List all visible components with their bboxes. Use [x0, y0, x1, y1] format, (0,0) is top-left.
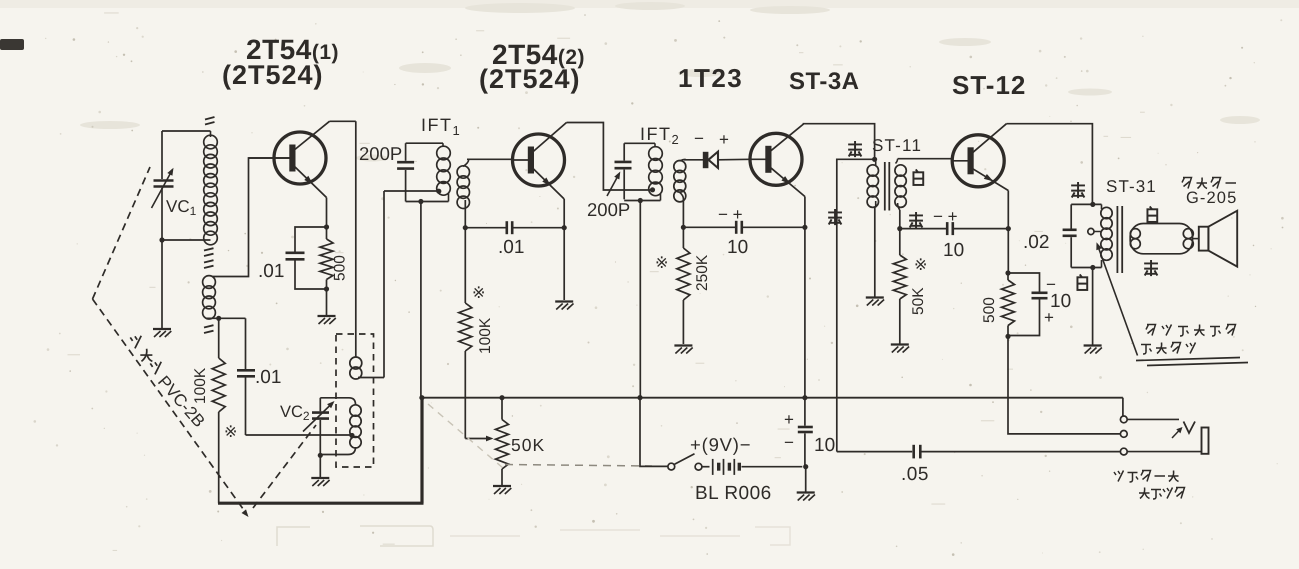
svg-text:1T23: 1T23 [678, 63, 743, 93]
svg-text:+: + [1044, 308, 1054, 327]
wire Q2 emitter down [563, 199, 565, 300]
capacitor .01 Q1 emitter [295, 227, 327, 252]
node volume top on bus [499, 395, 504, 400]
wire Q2 collector top [567, 123, 653, 191]
wire ST-31 bottom to ground [1092, 268, 1094, 345]
earphone jack body [1202, 428, 1209, 454]
svg-text:G-205: G-205 [1186, 189, 1237, 207]
wire VC1 left upper [161, 131, 163, 179]
variable capacitor VC1 [154, 179, 174, 182]
IFT1 secondary coil [457, 166, 469, 178]
node IFT1 tap [436, 189, 441, 194]
node ST-31 bottom [1090, 265, 1095, 270]
diode detector [703, 152, 709, 168]
scan mark left edge [0, 39, 24, 50]
antenna coil core marks middle [204, 248, 214, 250]
thick chassis line vertical [420, 398, 423, 504]
node antenna secondary bottom [216, 316, 221, 321]
svg-text:※: ※ [472, 285, 485, 302]
wire Q3 collector top [804, 124, 875, 160]
transformer ST-31 secondary [1130, 224, 1192, 254]
tap note arrow [1098, 245, 1138, 356]
wire IFT1 bottom to bus [420, 202, 422, 398]
ground 250K [674, 344, 692, 346]
capacitor 10 battery bypass [804, 398, 806, 426]
faint ghost smudges [80, 2, 1260, 162]
antenna coil L1 primary [210, 131, 212, 137]
node VC2 bottom [318, 453, 323, 458]
power switch [668, 463, 675, 470]
svg-text:+: + [784, 410, 794, 429]
node Q4 emitter junction [1006, 226, 1011, 231]
svg-text:.01: .01 [258, 261, 284, 282]
wire jack sleeve [1127, 451, 1201, 453]
svg-text:ST-11: ST-11 [872, 136, 922, 155]
mitsumi gang dashed line upper [93, 167, 151, 299]
node .01 left [463, 225, 468, 230]
svg-text:100K: 100K [192, 367, 209, 404]
VC2 arrow [303, 403, 333, 432]
label midori green ST-11 top [848, 141, 862, 157]
mechanical link fragment [428, 404, 503, 468]
wire VC1 to ground [161, 240, 163, 328]
transformer ST-11 core [884, 162, 886, 211]
node VC1 bottom [159, 237, 164, 242]
wire Q4 collector top [1007, 124, 1093, 204]
capacitor 10 detector [683, 226, 735, 228]
wire Q4 emitter down [1007, 191, 1009, 229]
svg-text:.01: .01 [255, 367, 281, 388]
svg-text:+(9V)−: +(9V)− [690, 434, 751, 455]
earphone jack contact middle [1120, 431, 1127, 438]
wire VC1 top [162, 130, 211, 132]
node Q1 emitter RC bottom [324, 286, 329, 291]
wire Q3 emitter to bus [804, 227, 806, 397]
variable capacitor VC2 [319, 398, 321, 412]
earphone jack contact bottom [1120, 448, 1127, 455]
wire IFT2 bottom to bus [639, 201, 641, 398]
svg-text:BL R006: BL R006 [695, 483, 772, 504]
svg-text:200P: 200P [587, 199, 630, 220]
thick chassis line bottom [218, 502, 424, 505]
svg-text:10: 10 [727, 237, 748, 258]
transistor Q1 2T54 [249, 121, 330, 197]
200P arrow [607, 174, 619, 196]
ground ST-11 primary [866, 296, 884, 298]
wire bus to switch [640, 398, 668, 467]
capacitor 10 driver [900, 228, 947, 230]
resistor 100K converter [218, 318, 220, 358]
capacitor 10 output bypass [1008, 273, 1040, 292]
node IFT2 tap [650, 187, 655, 192]
oscillator feedback winding [350, 357, 362, 369]
ground VC2 [311, 477, 329, 479]
node Q1 emitter junction [324, 224, 329, 229]
earphone jack contact top [1120, 416, 1127, 423]
oscillator transformer dashed box [336, 334, 374, 467]
label midori green ST-11 bottom [909, 212, 923, 228]
node bus battery [637, 395, 642, 400]
svg-text:−: − [784, 433, 794, 452]
wire 500 bottom to jack [1008, 336, 1120, 434]
node battery plus [803, 464, 808, 469]
svg-text:− +: − + [718, 205, 743, 224]
wire volume wiper arrow [465, 438, 487, 440]
wire VC1 bottom [162, 239, 211, 241]
wire antenna secondary bottom [206, 317, 246, 319]
capacitor .05 [912, 445, 915, 459]
wire to ground Q1 [326, 289, 328, 315]
svg-text:(2T524): (2T524) [479, 64, 581, 94]
svg-text:※: ※ [914, 257, 927, 274]
svg-text:100K: 100K [477, 317, 494, 354]
wire IFT2 secondary bottom [680, 193, 684, 200]
svg-text:ST-31: ST-31 [1106, 177, 1157, 196]
wire Q1 collector top [330, 120, 356, 122]
ground ST-31 [1084, 344, 1102, 346]
mitsumi gang dashed line lower [93, 299, 247, 513]
wire secondary to diode [684, 159, 703, 161]
wire VC2 to ground [319, 455, 321, 477]
node green junction [872, 157, 877, 162]
svg-text:50K: 50K [511, 435, 545, 455]
label earphone jack line2 [1139, 488, 1150, 499]
svg-text:※: ※ [655, 255, 668, 272]
transformer ST-11 secondary [896, 159, 898, 164]
label midori green ST-31 secondary [1144, 260, 1158, 276]
IFT2 secondary coil [674, 161, 686, 173]
VC1 arrow [152, 170, 173, 209]
svg-text:ST-12: ST-12 [952, 70, 1026, 100]
label tap note line2 [1141, 345, 1152, 355]
wire earphone feed [837, 451, 912, 453]
node detector junction [681, 225, 686, 230]
tap note underline [1136, 358, 1240, 361]
resistor 100K second stage [464, 228, 466, 303]
capacitor 200P IFT2 [623, 143, 625, 160]
node 500 bottom [1005, 334, 1010, 339]
faint ghost box bottom [277, 526, 790, 546]
svg-text:−: − [694, 129, 704, 148]
transformer ST-31 tap circle [1088, 228, 1094, 234]
antenna coil L1 secondary [203, 276, 216, 289]
earphone jack tip spring [1127, 418, 1179, 420]
capacitor .02 [1070, 204, 1072, 228]
wire Q4 base [898, 158, 953, 160]
ground 50K bias [891, 343, 909, 345]
transformer ST-11 primary [875, 159, 877, 165]
wire bus to jack [1122, 398, 1124, 416]
mitsumi gang dashed to VC2 [253, 425, 316, 508]
svg-text:− +: − + [933, 207, 958, 226]
svg-text:+: + [719, 130, 729, 149]
svg-text:.05: .05 [901, 464, 929, 485]
node Q3 emitter junction [802, 225, 807, 230]
mechanical link pot to switch dashed [505, 465, 652, 467]
wire to oscillator coil tap [246, 434, 353, 436]
svg-text:500: 500 [332, 255, 349, 281]
node bus 10uF [802, 395, 807, 400]
label shiro white ST-31 bottom [1077, 274, 1087, 290]
label shiro white ST-31 secondary [1147, 206, 1157, 222]
node driver junction [897, 226, 902, 231]
label tap note line1 [1146, 325, 1156, 336]
label midori green ST-31 top [1071, 182, 1085, 198]
ground Q2 emitter [555, 300, 573, 302]
wire oscillator feedback to IFT1 [383, 191, 385, 378]
transformer ST-31 core [1116, 206, 1118, 273]
svg-text:.02: .02 [1023, 232, 1049, 253]
capacitor .01 second stage [465, 227, 506, 229]
node 500 top [1005, 270, 1010, 275]
svg-text:10: 10 [814, 435, 835, 456]
svg-text:.01: .01 [498, 237, 524, 258]
transistor Q2 2T54 second [513, 123, 567, 200]
svg-text:50K: 50K [910, 287, 927, 315]
wire Q1 emitter down [326, 198, 328, 228]
antenna coil core mark top [205, 122, 215, 125]
svg-text:ST-3A: ST-3A [789, 68, 860, 95]
ground VC1 [153, 328, 171, 330]
node .01 right [562, 225, 567, 230]
ground volume pot [493, 485, 511, 487]
battery BL R006 [702, 466, 710, 468]
wire Q4 emitter to 500 [1007, 229, 1009, 273]
capacitor .01 oscillator coupling [245, 318, 247, 369]
label Mitsumi rotated [130, 336, 141, 349]
gang line arrowhead [242, 509, 251, 518]
wire green junction left and down [837, 159, 875, 451]
power bus wire [422, 397, 1123, 399]
svg-text:200P: 200P [359, 143, 402, 164]
wire battery to ground [805, 467, 807, 492]
wire ST-11 secondary bottom [899, 210, 901, 229]
svg-text:500: 500 [981, 297, 998, 323]
resistor 500 output emitter [1007, 273, 1009, 280]
transistor Q3 1T23 [750, 124, 805, 197]
node IFT1 bottom [418, 199, 423, 204]
node IFT2 bottom [638, 198, 643, 203]
resistor 250K [682, 227, 684, 248]
svg-text:250K: 250K [694, 254, 711, 291]
oscillator tuned winding [320, 398, 355, 405]
label earphone jack line1 [1114, 471, 1124, 482]
antenna coil core mark bottom [204, 325, 214, 327]
wire diode to Q3 base [718, 158, 751, 161]
label aka red [828, 209, 842, 225]
node bus left [419, 395, 424, 400]
wire Q1 base [212, 158, 292, 277]
svg-text:10: 10 [943, 240, 964, 261]
label hosutaa [1182, 178, 1192, 189]
node oscillator coil tap [349, 433, 354, 438]
ground Q1 emitter [318, 315, 336, 317]
volume potentiometer 50K [501, 398, 503, 420]
speaker G-205 [1193, 238, 1199, 240]
svg-text:(2T524): (2T524) [222, 60, 324, 90]
resistor 500 Q1 emitter [320, 239, 333, 280]
capacitor 200P IFT1 [405, 143, 407, 161]
svg-text:※: ※ [224, 424, 237, 441]
IFT1 primary box and coil [406, 142, 443, 144]
wire Q3 emitter down [804, 197, 806, 228]
wire Q2 base [467, 158, 513, 160]
transistor Q4 output [952, 124, 1008, 191]
label shiro white ST-11 [913, 169, 923, 185]
transformer ST-31 primary [1071, 203, 1101, 205]
ground battery [797, 491, 815, 493]
resistor 50K bias [899, 229, 901, 255]
node ST-31 top [1090, 202, 1095, 207]
IFT2 primary box and coil [624, 142, 655, 144]
wire ST-11 primary to ground [874, 208, 876, 297]
